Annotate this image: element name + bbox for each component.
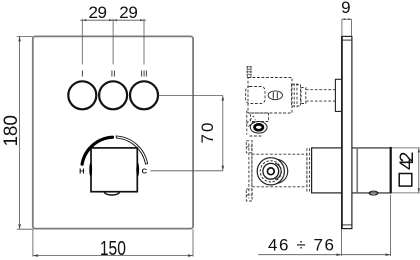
dimension 29 29 top — [80, 3, 146, 65]
knob III circle — [130, 81, 158, 109]
upper valve screw oval — [268, 91, 282, 100]
svg-text:46 ÷ 76: 46 ÷ 76 — [268, 236, 334, 255]
lower valve body (dashed) — [252, 148, 310, 193]
knob bottom bump — [104, 192, 119, 195]
upper spindle sleeve (solid) — [335, 79, 341, 111]
svg-text:I: I — [81, 69, 83, 79]
svg-text:29: 29 — [88, 3, 107, 22]
svg-text:150: 150 — [100, 237, 126, 260]
label H — [79, 166, 84, 175]
label II — [111, 69, 116, 79]
lower cartridge — [257, 158, 288, 185]
svg-text:29: 29 — [119, 3, 138, 22]
svg-text:II: II — [111, 69, 116, 79]
front plate 150x180 — [33, 36, 193, 228]
lower sleeve (solid) — [312, 148, 342, 193]
dimension 150 bottom — [33, 230, 193, 260]
temperature knob square — [91, 148, 137, 192]
label III — [140, 69, 147, 79]
svg-text:9: 9 — [341, 0, 350, 17]
knob II circle — [99, 81, 127, 109]
dimension 180 left — [1, 36, 34, 229]
dimension 46÷76 bottom — [258, 195, 390, 256]
svg-text:42: 42 — [396, 151, 418, 170]
cold side thin double arc — [116, 136, 147, 164]
label I — [81, 69, 83, 79]
hot side thick arc — [82, 137, 112, 164]
svg-text:H: H — [79, 166, 84, 175]
label C — [142, 167, 148, 176]
dimension square 42 right — [392, 148, 420, 193]
knob left grip — [89, 163, 92, 177]
svg-text:III: III — [140, 69, 147, 79]
upper valve thread ticks — [246, 67, 251, 75]
dimension 70 right — [150, 96, 224, 171]
outlet eye — [250, 122, 267, 134]
lower valve flange (dashed) — [246, 141, 252, 201]
dimension 9 top — [341, 0, 352, 36]
svg-text:C: C — [142, 167, 148, 176]
wall plate side view — [342, 36, 352, 228]
outlet elbow bracket (dashed) — [247, 111, 269, 137]
svg-text:70: 70 — [198, 123, 217, 144]
knob right grip — [136, 163, 139, 177]
svg-text:180: 180 — [1, 115, 22, 147]
temperature knob side view — [352, 147, 392, 195]
knob I circle — [68, 81, 96, 109]
side view: upper valve body (dashed, behind wall) — [246, 66, 336, 113]
